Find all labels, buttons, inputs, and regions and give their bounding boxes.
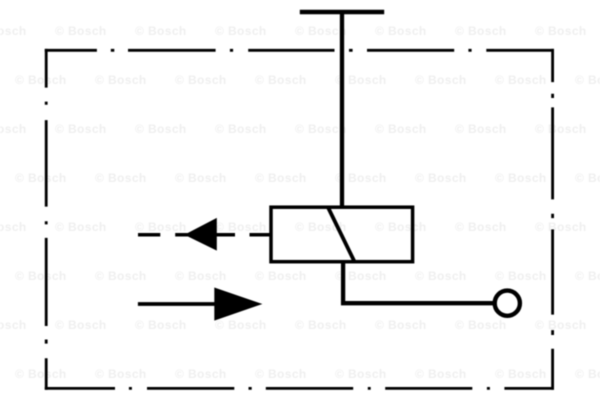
svg-text:© Bosch: © Bosch	[575, 269, 600, 283]
svg-text:© Bosch: © Bosch	[455, 122, 507, 136]
svg-text:© Bosch: © Bosch	[575, 73, 600, 87]
svg-text:© Bosch: © Bosch	[135, 24, 187, 38]
svg-text:© Bosch: © Bosch	[55, 318, 107, 332]
svg-text:© Bosch: © Bosch	[175, 367, 227, 381]
svg-text:© Bosch: © Bosch	[215, 220, 267, 234]
svg-text:© Bosch: © Bosch	[95, 171, 147, 185]
valve box U1 (rectangle)	[271, 207, 413, 262]
svg-text:© Bosch: © Bosch	[455, 24, 507, 38]
svg-text:© Bosch: © Bosch	[0, 220, 27, 234]
svg-text:© Bosch: © Bosch	[255, 367, 307, 381]
svg-text:© Bosch: © Bosch	[535, 220, 587, 234]
svg-text:© Bosch: © Bosch	[295, 122, 347, 136]
svg-text:© Bosch: © Bosch	[175, 171, 227, 185]
svg-text:© Bosch: © Bosch	[15, 73, 67, 87]
svg-text:© Bosch: © Bosch	[535, 318, 587, 332]
svg-text:© Bosch: © Bosch	[415, 367, 467, 381]
wire: vertical lead from terminal T1 down to valve box U1	[340, 12, 344, 208]
svg-text:© Bosch: © Bosch	[0, 24, 27, 38]
svg-text:© Bosch: © Bosch	[215, 318, 267, 332]
svg-text:© Bosch: © Bosch	[0, 122, 27, 136]
flow arrow A2: shaft line	[138, 302, 215, 306]
svg-text:© Bosch: © Bosch	[375, 24, 427, 38]
enclosure outline (dash-dot component boundary box)	[45, 49, 554, 390]
terminal T2: output circle	[495, 291, 520, 316]
svg-text:© Bosch: © Bosch	[95, 367, 147, 381]
svg-text:© Bosch: © Bosch	[495, 269, 547, 283]
svg-text:© Bosch: © Bosch	[55, 220, 107, 234]
svg-text:© Bosch: © Bosch	[535, 24, 587, 38]
arrowhead A2: solid triangle pointing right	[214, 288, 262, 321]
wire: output from bottom of U1, down then right to terminal circle	[343, 260, 494, 303]
svg-text:© Bosch: © Bosch	[135, 318, 187, 332]
svg-text:© Bosch: © Bosch	[255, 171, 307, 185]
svg-text:© Bosch: © Bosch	[15, 269, 67, 283]
svg-text:© Bosch: © Bosch	[575, 171, 600, 185]
svg-text:© Bosch: © Bosch	[535, 122, 587, 136]
svg-text:© Bosch: © Bosch	[95, 269, 147, 283]
svg-text:© Bosch: © Bosch	[415, 269, 467, 283]
svg-text:© Bosch: © Bosch	[415, 73, 467, 87]
svg-text:© Bosch: © Bosch	[215, 24, 267, 38]
svg-text:© Bosch: © Bosch	[455, 318, 507, 332]
svg-text:© Bosch: © Bosch	[0, 318, 27, 332]
svg-text:© Bosch: © Bosch	[295, 24, 347, 38]
svg-text:© Bosch: © Bosch	[15, 171, 67, 185]
svg-text:© Bosch: © Bosch	[215, 122, 267, 136]
svg-text:© Bosch: © Bosch	[495, 73, 547, 87]
svg-text:© Bosch: © Bosch	[575, 367, 600, 381]
svg-text:© Bosch: © Bosch	[495, 171, 547, 185]
svg-text:© Bosch: © Bosch	[255, 269, 307, 283]
terminal T1: top supply bar	[300, 10, 384, 14]
svg-text:© Bosch: © Bosch	[55, 122, 107, 136]
svg-text:© Bosch: © Bosch	[295, 318, 347, 332]
svg-text:© Bosch: © Bosch	[15, 367, 67, 381]
svg-text:© Bosch: © Bosch	[455, 220, 507, 234]
svg-text:© Bosch: © Bosch	[375, 220, 427, 234]
svg-text:© Bosch: © Bosch	[495, 367, 547, 381]
svg-text:© Bosch: © Bosch	[55, 24, 107, 38]
svg-text:© Bosch: © Bosch	[335, 367, 387, 381]
svg-text:© Bosch: © Bosch	[375, 318, 427, 332]
svg-text:© Bosch: © Bosch	[95, 73, 147, 87]
arrowhead A1: solid triangle pointing left on dashed line	[184, 218, 216, 251]
svg-text:© Bosch: © Bosch	[135, 220, 187, 234]
svg-text:© Bosch: © Bosch	[415, 171, 467, 185]
svg-text:© Bosch: © Bosch	[255, 73, 307, 87]
svg-text:© Bosch: © Bosch	[375, 122, 427, 136]
svg-text:© Bosch: © Bosch	[175, 269, 227, 283]
svg-text:© Bosch: © Bosch	[175, 73, 227, 87]
dashed pilot/control line into left side of U1	[138, 233, 271, 237]
svg-text:© Bosch: © Bosch	[135, 122, 187, 136]
diagonal stroke inside valve box U1	[328, 208, 354, 262]
